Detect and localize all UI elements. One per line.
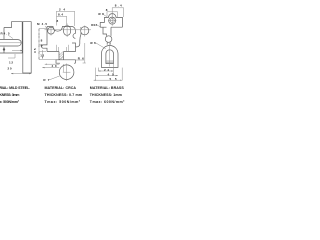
flat pattern top bar with dome xyxy=(105,14,123,28)
top dim A xyxy=(57,11,75,13)
lobe extension line down xyxy=(83,43,86,63)
small bend slots xyxy=(57,45,69,52)
lobe vertical centerline xyxy=(84,26,86,37)
neck below plate xyxy=(59,52,64,60)
ball centerline xyxy=(63,64,71,82)
neck hatch xyxy=(59,52,63,60)
M4.5 leader xyxy=(45,26,49,31)
svg-text:R4.5: R4.5 xyxy=(91,23,97,27)
svg-text:RIAL: MILD STEEL.: RIAL: MILD STEEL. xyxy=(0,86,30,90)
left edge and tab xyxy=(42,27,47,52)
svg-text:Ø8: Ø8 xyxy=(98,12,104,16)
svg-text:KNESS: 3mm: KNESS: 3mm xyxy=(0,93,20,97)
front view outline top xyxy=(47,27,75,34)
svg-text:Ø6: Ø6 xyxy=(90,41,96,45)
circle hole top xyxy=(109,17,116,24)
bend line xyxy=(80,27,82,34)
top dim B xyxy=(57,16,67,18)
svg-text:12: 12 xyxy=(40,54,44,58)
svg-text:R 7: R 7 xyxy=(43,78,49,82)
svg-text:40: 40 xyxy=(52,64,57,68)
common horizontal centerline xyxy=(45,29,92,31)
svg-text:x: 500N/mm²: x: 500N/mm² xyxy=(0,100,20,104)
centerline xyxy=(109,43,111,67)
right lobe circle tab xyxy=(81,27,89,35)
R6 dim right of bar xyxy=(75,59,84,61)
svg-text:12: 12 xyxy=(9,61,13,65)
slot centerline xyxy=(0,42,22,44)
svg-text:THICKNESS: 1mm: THICKNESS: 1mm xyxy=(90,93,122,97)
svg-text:24: 24 xyxy=(104,68,109,72)
left part front-view outline xyxy=(0,22,22,53)
slot stadium xyxy=(0,40,21,46)
circle hole with crosshair xyxy=(48,27,55,34)
left part left edge xyxy=(3,28,5,40)
filled dot xyxy=(3,48,5,50)
svg-text:M 4.5: M 4.5 xyxy=(37,22,47,26)
bottom step dim lines xyxy=(8,54,15,58)
R4.5 leader xyxy=(8,35,13,39)
svg-text:8.4: 8.4 xyxy=(58,13,63,17)
svg-text:20: 20 xyxy=(8,67,12,71)
side view inner tick dimension xyxy=(12,50,23,52)
dome view xyxy=(101,46,118,68)
svg-text:MATERIAL: CRCA: MATERIAL: CRCA xyxy=(45,86,77,90)
bottom dimension line xyxy=(11,73,31,75)
svg-text:8.4: 8.4 xyxy=(115,4,122,8)
bottom-left dims xyxy=(42,64,59,67)
obround hole xyxy=(64,26,71,36)
svg-text:MATERIAL: BRASS: MATERIAL: BRASS xyxy=(90,86,125,90)
svg-text:R4.5: R4.5 xyxy=(1,32,10,36)
leaders xyxy=(104,15,109,18)
ball circle xyxy=(59,65,74,80)
inner slot xyxy=(106,50,114,64)
left step block / neck xyxy=(103,27,107,36)
bar xyxy=(56,60,75,63)
top dims xyxy=(112,7,123,9)
right hook descent xyxy=(76,34,82,52)
svg-text:Tmax: 600N/mm²: Tmax: 600N/mm² xyxy=(90,100,125,104)
side view rectangle xyxy=(23,22,31,73)
R7 leader xyxy=(50,76,61,80)
left dimension stack xyxy=(38,29,40,60)
svg-text:35: 35 xyxy=(33,48,37,53)
svg-text:Tmax: 500N/mm²: Tmax: 500N/mm² xyxy=(45,100,81,104)
bottom dims xyxy=(96,64,123,81)
bottom edge xyxy=(47,51,76,53)
svg-text:THICKNESS: 0.7 mm: THICKNESS: 0.7 mm xyxy=(45,93,83,97)
